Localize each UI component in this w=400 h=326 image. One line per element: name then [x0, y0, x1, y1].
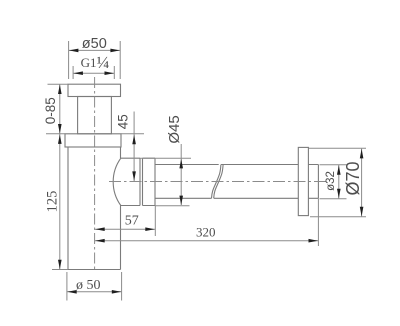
neck tube — [78, 97, 112, 134]
dim 125 ext bottom — [52, 269, 68, 271]
svg-text:ø32: ø32 — [325, 171, 337, 191]
centerlines — [95, 77, 329, 270]
arrows dim o32 — [337, 165, 341, 175]
horizontal centerline — [109, 181, 329, 183]
dim o70 ext — [309, 148, 366, 217]
compression ring — [140, 158, 143, 205]
svg-text:57: 57 — [125, 214, 139, 229]
arrows dim o50 top — [69, 49, 79, 53]
pipe break symbol — [212, 165, 224, 199]
body flange ring — [65, 134, 121, 147]
dim G line — [73, 72, 114, 74]
wall flange (escutcheon) — [298, 147, 308, 215]
dim o50 bottom line — [67, 291, 122, 293]
svg-text:320: 320 — [196, 225, 216, 240]
dim o45 ext — [140, 158, 191, 206]
arrowheads — [58, 49, 363, 294]
dim o45 line — [180, 144, 182, 205]
arrows dim o45 — [179, 159, 183, 169]
arrows dim 0-85 — [58, 85, 62, 95]
top flange (nut) of tailpiece — [68, 84, 121, 96]
arrows dim 45 — [132, 135, 136, 145]
elbow top/bottom edges — [121, 158, 140, 205]
dim 125 line — [59, 134, 61, 270]
svg-text:ø 50: ø 50 — [76, 278, 101, 293]
dim 45 ext — [121, 133, 144, 135]
svg-text:45: 45 — [116, 114, 131, 129]
svg-text:Ø45: Ø45 — [166, 115, 183, 143]
svg-text:125: 125 — [44, 191, 60, 213]
svg-text:0-85: 0-85 — [43, 97, 58, 124]
cup body — [68, 147, 121, 270]
dim o32 line — [338, 165, 340, 199]
dim 0-85 ext — [46, 84, 68, 134]
dim 0-85 line — [59, 84, 61, 134]
arrows dim o50 bottom — [67, 290, 77, 294]
dim o70 line — [361, 149, 363, 217]
arrows dim o70 — [360, 149, 364, 159]
dim o50 bottom ext — [67, 272, 122, 301]
dimension/extension lines — [46, 41, 366, 301]
dim o50 top ext — [69, 41, 121, 79]
dim 45 line — [133, 112, 135, 182]
dim 57 ext — [154, 206, 156, 236]
svg-text:Ø70: Ø70 — [343, 161, 363, 195]
dim 320 line — [95, 240, 318, 242]
vertical centerline — [94, 77, 96, 270]
dim 57 line — [95, 228, 155, 230]
dim 320 ext — [317, 199, 319, 247]
arrows dim G1 1/4 — [73, 71, 83, 75]
dim o32 ext — [320, 165, 347, 199]
svg-text:G1¼: G1¼ — [81, 53, 110, 72]
dim o50 top line — [69, 49, 121, 51]
arrows dim 125 — [58, 134, 62, 144]
arrows dim 57 — [95, 227, 105, 231]
arrows dim 320 — [95, 239, 105, 243]
svg-text:ø50: ø50 — [82, 36, 107, 52]
horizontal outlet pipe — [155, 165, 318, 199]
dim G ext — [73, 66, 114, 79]
elbow dome arc — [113, 158, 121, 205]
compression nut — [143, 158, 156, 205]
